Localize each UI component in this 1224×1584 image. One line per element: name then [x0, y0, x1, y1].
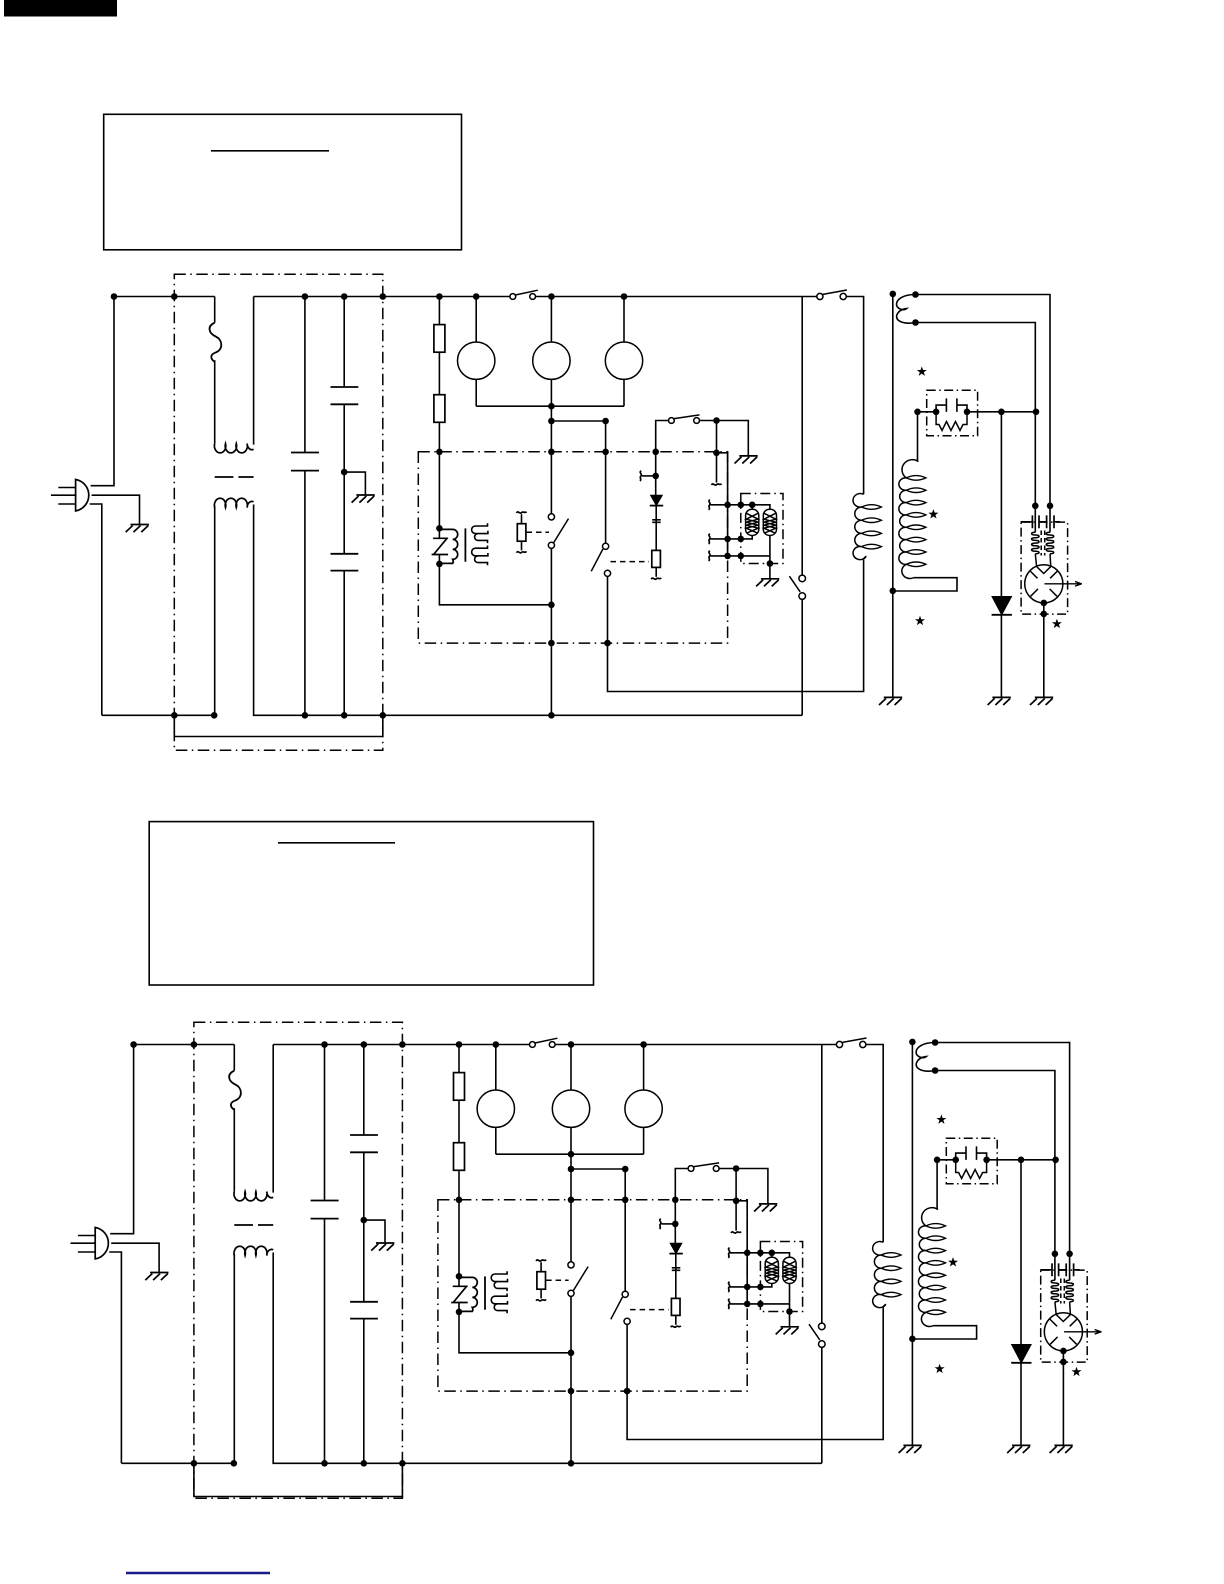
capacitor C1 bottom lead	[304, 471, 306, 716]
diode D1 feed	[655, 452, 657, 496]
wire plug earth lead	[92, 495, 140, 524]
bleeder resistor R4 zigzag	[936, 412, 967, 431]
ground HV diode	[988, 697, 1011, 705]
title box (top schematic)	[104, 114, 462, 250]
fuse F1 (thermal cutout curve)	[210, 323, 222, 362]
shield return loop (bottom schematic)	[194, 1463, 403, 1496]
switch SW1 blade	[515, 290, 537, 295]
junction dots: control box nodes	[436, 403, 720, 646]
door switch SW2 blade	[554, 519, 569, 543]
wire plug line to top bus	[91, 297, 114, 486]
connector hook relay top	[517, 512, 527, 514]
motor M1 lead	[475, 297, 477, 343]
connector hook sensor stub	[712, 484, 722, 486]
wire monitor branch upper	[801, 297, 803, 575]
wire top bus middle segment	[254, 296, 510, 298]
junction dots: HV section nodes	[890, 291, 1054, 618]
relay contact SW4 blade	[674, 415, 699, 419]
HV capacitor box (dash-dot)	[927, 390, 978, 436]
wire motor common	[476, 405, 624, 407]
capacitor C1	[291, 453, 319, 471]
HV capacitor C4	[936, 398, 967, 412]
title underline (bottom box)	[278, 842, 395, 844]
diode D1	[651, 496, 662, 506]
control circuit box (dash-dot)	[418, 452, 727, 643]
LV transformer T1 core	[464, 528, 466, 561]
black corner tab	[4, 0, 117, 17]
HV diode D2 cathode bar	[992, 614, 1012, 616]
choke L1 bottom winding	[214, 498, 253, 507]
wire T2 common vertical	[892, 294, 894, 591]
HV transformer T2 secondary turns	[906, 476, 926, 567]
resistor R2	[434, 395, 445, 423]
wire fuse to choke	[214, 360, 216, 443]
wire node to bottom bus	[550, 605, 552, 716]
wire monitor branch lower	[801, 599, 803, 715]
heater element H1 top lead	[751, 505, 753, 509]
wire filament lead A	[916, 295, 1051, 506]
wire top bus left segment	[114, 296, 215, 298]
lamp M2 lead	[550, 297, 552, 343]
door switch SW3 blade	[591, 549, 603, 571]
magnetron V1 cathode leads	[1035, 554, 1051, 567]
wire R1 to R2	[438, 352, 440, 395]
capacitor C2 top lead	[343, 297, 345, 388]
motor M3 lead	[623, 297, 625, 343]
magnetron V1 anode vanes	[1030, 571, 1058, 596]
HV secondary top lead	[917, 412, 919, 462]
plug prong bottom	[58, 503, 75, 505]
lamp M2	[533, 342, 570, 379]
magnetron V1 cathode vee	[1037, 567, 1051, 574]
filament choke right	[1046, 532, 1054, 554]
wire common to timer branch	[551, 421, 605, 543]
wire choke top right leg	[253, 297, 255, 445]
wire common drop	[550, 406, 552, 514]
ground heater	[756, 579, 779, 587]
filament choke left	[1032, 532, 1040, 554]
connector hook heater line 3	[709, 551, 711, 561]
diode D1 cathode bar	[650, 505, 663, 507]
star mark common	[915, 616, 925, 625]
heater element H2 bottom lead	[769, 536, 771, 579]
ground magnetron	[1030, 697, 1053, 705]
door switch SW2 bottom contact	[548, 542, 554, 548]
title underline (top box)	[211, 150, 329, 152]
LV transformer T1 secondary winding 2	[472, 546, 488, 566]
wire heater line 2	[709, 536, 752, 539]
star mark magnetron	[1052, 619, 1062, 628]
HV secondary tail to common	[893, 578, 957, 591]
ground filter midpoint	[352, 495, 375, 503]
junction dots: top bus nodes	[111, 293, 628, 300]
choke core dashes	[215, 476, 254, 478]
resistor R3 bottom lead	[655, 567, 657, 576]
LV transformer T1 primary lead top	[438, 528, 440, 564]
AC plug P1	[76, 479, 89, 511]
wire T2 common to chassis	[892, 591, 894, 697]
power relay switch SW6 left contact	[817, 293, 823, 299]
relay link (dashed)	[527, 531, 550, 533]
capacitor C3 bottom lead	[343, 571, 345, 716]
wire C2 to C3	[343, 404, 345, 554]
relay contact SW4 left	[669, 418, 675, 424]
motor M3	[605, 342, 642, 379]
wire SW3 down and across to HV transformer	[608, 560, 864, 692]
magnetron feedthrough capacitor	[1021, 515, 1060, 528]
resistor R3	[652, 550, 661, 567]
LV transformer T1 primary coil	[440, 529, 458, 563]
fuse F1 lead	[214, 297, 216, 323]
T2 filament winding	[897, 295, 916, 324]
HV transformer T2 primary turns	[862, 505, 882, 549]
star mark secondary top	[917, 366, 927, 375]
door switch SW2 top contact	[548, 514, 554, 520]
wire diode tap	[642, 475, 656, 477]
LV transformer T1 primary varistor Z	[432, 538, 449, 554]
connector hook diode tap	[640, 471, 642, 481]
wire HV cap left	[918, 411, 937, 413]
blue footer underline	[126, 1572, 270, 1574]
magnetron V1 body	[1025, 565, 1063, 603]
HV transformer T2 secondary coil	[899, 460, 919, 579]
wire HV cap to diode node	[967, 411, 1036, 413]
wire filament lead B	[916, 323, 1036, 506]
connector hook heater line 1	[709, 500, 711, 510]
wire plug neutral lead	[90, 504, 102, 715]
monitor switch SW5 bottom contact	[799, 593, 806, 600]
wire choke bottom right leg to bottom bus	[254, 505, 803, 716]
motor M1	[458, 342, 495, 379]
heater assembly box (dash-dot)	[741, 494, 783, 564]
capacitor C3	[331, 554, 359, 571]
connector break bars	[652, 520, 661, 523]
wire filament lead B through cap	[1034, 506, 1036, 533]
wire SW4 to chassis	[700, 421, 749, 456]
HV diode D2	[992, 597, 1011, 615]
motor M3 bottom lead	[623, 379, 625, 406]
wire SW6 to HV transformer primary	[846, 297, 863, 495]
HV transformer T2 primary coil	[853, 494, 866, 560]
door switch SW3 bottom contact	[604, 570, 610, 576]
wire SW2 to transformer node	[550, 548, 552, 604]
capacitor C1 top lead	[304, 297, 306, 453]
connector hook R3 bottom	[651, 578, 661, 580]
resistor R1	[434, 325, 445, 353]
resistor R1 lead	[438, 297, 440, 325]
motor M1 bottom lead	[475, 379, 477, 406]
door switch SW3 top contact	[603, 543, 609, 549]
star mark secondary mid	[928, 509, 938, 518]
heater element H1	[746, 509, 759, 535]
relay coil RY1 bottom lead	[521, 541, 523, 550]
wire D1 to R3	[655, 506, 657, 551]
wire sensor stub	[716, 421, 718, 483]
wire midpoint earth stub	[344, 472, 365, 494]
shield return loop (top schematic)	[174, 715, 382, 736]
wire heater line 3	[709, 555, 770, 557]
heater element H2	[763, 509, 776, 535]
switch SW1 (top bus)	[510, 294, 516, 300]
LV transformer T1 secondary winding 1	[472, 523, 488, 543]
wire top bus right segment	[535, 296, 817, 298]
relay contact SW4 feed	[656, 421, 669, 453]
filament choke core (dashed)	[1041, 531, 1045, 556]
relay coil RY1	[517, 524, 526, 542]
junction dots: bottom bus nodes	[171, 469, 555, 719]
wire heater line 1	[709, 505, 770, 509]
magnetron V1 antenna arrow	[1045, 582, 1083, 587]
wire choke bottom left leg	[214, 506, 216, 715]
wire D2 to chassis	[1000, 615, 1002, 697]
wire T1 bottom to switch drop	[439, 564, 551, 605]
plug prong middle	[51, 494, 76, 496]
second schematic (duplicate circuit)	[71, 1022, 1102, 1498]
junction dots: heater assembly nodes	[724, 502, 773, 567]
plug prong top	[58, 487, 75, 489]
choke L1 top winding	[214, 444, 253, 453]
power relay switch SW6 right contact	[840, 293, 846, 299]
wire R2 into control box	[438, 422, 440, 528]
monitor switch SW5 blade	[789, 576, 800, 592]
relay coil RY1 top lead	[521, 514, 523, 524]
wire filament lead A through cap	[1049, 506, 1051, 533]
connector hook relay bottom	[517, 551, 527, 553]
lamp M2 bottom lead	[550, 379, 552, 406]
wire bottom bus left segment	[102, 714, 214, 716]
relay contact SW4 right	[694, 418, 700, 424]
ground plug earth	[126, 525, 149, 533]
door switch SW3 link (dashed)	[611, 561, 650, 563]
wire HV diode branch	[1000, 412, 1002, 597]
title box (bottom schematic)	[149, 822, 593, 985]
wire heater feed	[717, 453, 728, 556]
capacitor C2	[331, 387, 359, 404]
magnetron box (dash-dot)	[1021, 522, 1068, 614]
wire magnetron to chassis	[1043, 603, 1045, 697]
connector hook heater line 2	[709, 534, 711, 544]
monitor switch SW5 top contact	[799, 575, 806, 582]
power relay switch SW6 blade	[823, 290, 847, 294]
noise filter shield box (dash-dot)	[174, 274, 382, 750]
ground T2 common	[879, 697, 902, 705]
ground relay contact	[735, 456, 758, 464]
